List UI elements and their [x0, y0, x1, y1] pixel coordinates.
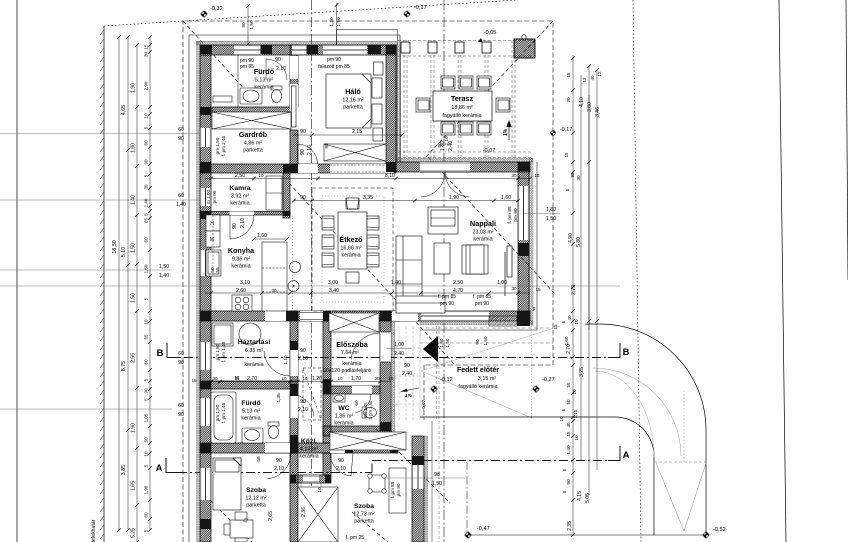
post junction gardrob [283, 164, 298, 173]
wardrobe halo wardrobe [324, 144, 386, 161]
roof hip bottom-left diagonal [205, 495, 252, 542]
svg-text:3,25: 3,25 [579, 367, 585, 377]
wall wall kamra bottom [200, 212, 290, 216]
window left window szoba1 [200, 468, 211, 500]
room label Szoba [353, 503, 374, 525]
svg-text:1,40: 1,40 [566, 445, 572, 455]
wall nappali top exterior [396, 162, 530, 172]
furniture bathroom1 [213, 86, 282, 104]
svg-text:90: 90 [276, 458, 282, 464]
roof hip bottom diagonal 2 [352, 512, 388, 542]
svg-text:1,50: 1,50 [432, 481, 442, 487]
post left wall g [200, 519, 211, 529]
post eloszoba NW post [323, 311, 331, 321]
furniture wc [333, 394, 377, 418]
dim line x432 [431, 421, 433, 542]
svg-text:Szoba: Szoba [246, 487, 266, 494]
porch paving horizontal dashes [391, 348, 420, 404]
svg-text:10: 10 [559, 416, 564, 422]
wall wall wc bottom [323, 426, 391, 436]
svg-text:8,75: 8,75 [121, 361, 127, 371]
svg-text:kerámia: kerámia [299, 454, 318, 460]
svg-text:2,10: 2,10 [276, 66, 286, 72]
svg-text:1,50: 1,50 [144, 264, 149, 273]
svg-text:kerámia: kerámia [241, 416, 260, 422]
svg-text:2,10: 2,10 [307, 145, 313, 155]
post nappali SE corner [517, 311, 530, 326]
svg-text:60: 60 [178, 193, 184, 199]
dashed line x439 [438, 326, 440, 542]
window top window halo [323, 45, 367, 55]
room label Haztartasi [238, 339, 271, 368]
wall top exterior [200, 45, 396, 55]
svg-text:-0,17: -0,17 [560, 127, 572, 133]
wall wall szoba2 right [412, 436, 424, 542]
door furdo2 door arc [290, 394, 314, 418]
svg-text:pm 90: pm 90 [327, 57, 341, 63]
svg-text:f. pm 25: f. pm 25 [346, 535, 364, 541]
svg-text:f. pm 1,45: f. pm 1,45 [221, 341, 226, 362]
svg-text:Gardrób: Gardrób [239, 130, 268, 139]
wall wall corridor left [290, 311, 298, 445]
svg-text:parketta: parketta [243, 148, 262, 154]
svg-text:pm 1,50: pm 1,50 [215, 137, 220, 154]
post exit stub l [290, 475, 296, 483]
svg-text:2,15: 2,15 [352, 129, 362, 135]
svg-text:2,55: 2,55 [131, 353, 137, 363]
svg-text:65: 65 [144, 218, 149, 224]
section line B-B [167, 343, 620, 358]
svg-text:-0,27: -0,27 [542, 377, 555, 383]
wall wall exit lobby right [323, 453, 331, 475]
svg-text:30: 30 [576, 175, 581, 181]
svg-text:15: 15 [191, 378, 197, 383]
svg-text:pm 90: pm 90 [396, 483, 401, 496]
post left wall e [200, 381, 211, 389]
svg-text:Szoba: Szoba [354, 503, 374, 510]
dim 1,80 1,50 right window [524, 213, 560, 215]
svg-text:60: 60 [178, 351, 184, 357]
ceiling lamps circles [290, 262, 301, 273]
svg-text:Fürdő: Fürdő [241, 400, 260, 407]
svg-text:m 1,00: m 1,00 [206, 190, 211, 204]
wall wall furdo1 right [290, 45, 298, 107]
roof hip terrace diagonal [424, 21, 553, 159]
svg-text:1,90: 1,90 [131, 423, 137, 433]
svg-text:18,86 m²: 18,86 m² [451, 105, 472, 111]
door szoba2 door arc [330, 453, 353, 476]
section line A-A [166, 446, 620, 473]
wardrobe szoba2 wardrobe left [298, 487, 338, 542]
svg-text:60: 60 [144, 437, 149, 443]
wall wall wc top [323, 386, 380, 394]
svg-text:-0,02: -0,02 [421, 399, 427, 410]
svg-text:60: 60 [144, 237, 149, 243]
svg-text:1,90: 1,90 [449, 195, 459, 201]
svg-text:15: 15 [566, 72, 571, 78]
opening halo door gap [297, 164, 318, 173]
post left wall f [200, 443, 211, 453]
svg-text:Étkező: Étkező [339, 235, 363, 244]
property line telekhatar [100, 26, 104, 542]
svg-text:15: 15 [534, 173, 540, 178]
terrace posts row [401, 42, 491, 53]
svg-text:2,50: 2,50 [453, 280, 463, 286]
svg-text:kerámia: kerámia [231, 264, 250, 270]
svg-text:60: 60 [178, 403, 184, 409]
room label Étkező [339, 235, 363, 259]
svg-text:60: 60 [354, 400, 360, 406]
room label Konyha [228, 246, 255, 270]
terrace edge line 2 [400, 45, 402, 162]
dim row y381 [205, 381, 391, 383]
svg-text:3,80: 3,80 [587, 102, 593, 112]
survey point bottom left [464, 526, 490, 539]
insulation strip szoba2 east [424, 436, 428, 542]
dimension chain left seg2 [126, 35, 130, 532]
svg-text:1,60: 1,60 [564, 336, 569, 345]
post entry SE post [380, 422, 391, 431]
terrace edge line at wall [396, 45, 398, 162]
svg-text:4,14 m²: 4,14 m² [300, 447, 318, 453]
svg-text:parketta: parketta [343, 105, 362, 111]
bottom dim line [468, 534, 706, 536]
svg-text:2,60: 2,60 [236, 288, 246, 294]
wall wall back exit [290, 475, 331, 483]
svg-text:90: 90 [338, 458, 344, 464]
svg-text:A: A [156, 463, 163, 474]
svg-text:Előszoba: Előszoba [336, 340, 369, 349]
door halo door [298, 144, 318, 164]
svg-text:15: 15 [535, 287, 541, 292]
opening gardrob slide gap [290, 84, 298, 127]
svg-text:30: 30 [144, 52, 149, 58]
terrace deck dashed strips [398, 40, 531, 158]
post top wall 2 [307, 45, 319, 54]
svg-text:1,50: 1,50 [131, 293, 137, 303]
kamra 60 140 dim [0, 133, 200, 135]
driveway guide arcs [593, 368, 681, 456]
svg-text:30: 30 [374, 376, 380, 381]
svg-text:5,10: 5,10 [121, 247, 127, 257]
opening haztartasi door gap [265, 311, 289, 321]
insulation strip halo right [396, 45, 400, 162]
svg-text:1,90: 1,90 [131, 83, 137, 93]
svg-text:1,30: 1,30 [329, 17, 335, 27]
svg-text:A: A [623, 450, 630, 461]
svg-text:4,10: 4,10 [579, 97, 585, 107]
svg-text:12,16 m²: 12,16 m² [342, 98, 363, 104]
window left window haztartasi [200, 342, 211, 370]
svg-text:10: 10 [258, 173, 264, 178]
svg-text:telekhatár: telekhatár [91, 519, 97, 542]
svg-text:5,13 m²: 5,13 m² [242, 409, 260, 415]
svg-text:2,36: 2,36 [301, 507, 307, 517]
svg-text:90: 90 [144, 159, 149, 165]
dim 98 150 [385, 477, 465, 479]
svg-text:Konyha: Konyha [228, 246, 255, 255]
svg-text:1,05: 1,05 [144, 413, 149, 422]
opening furdo1 door gap [290, 56, 298, 79]
svg-text:65: 65 [144, 334, 149, 340]
svg-text:3,35: 3,35 [363, 195, 373, 201]
svg-text:2,65: 2,65 [268, 511, 274, 521]
post corr bottom b [345, 443, 353, 453]
plinth outline solid [189, 35, 537, 542]
svg-text:90: 90 [324, 143, 330, 149]
kitchen dining dotted boundary [292, 218, 294, 311]
wall wall haztartasi bottom [200, 381, 298, 389]
roof overhang outline dashed [183, 21, 553, 542]
svg-text:kerámia: kerámia [254, 85, 273, 91]
svg-text:90: 90 [300, 195, 306, 201]
svg-text:pm 95: pm 95 [212, 190, 217, 203]
svg-text:15: 15 [144, 44, 149, 50]
wall left exterior [200, 55, 211, 542]
svg-text:1,50: 1,50 [336, 17, 342, 27]
svg-text:1,70: 1,70 [351, 376, 361, 382]
post exit stub r [325, 475, 331, 483]
post entry NE post [380, 311, 391, 321]
boundary line right dotted [633, 0, 641, 542]
furniture dining table [338, 198, 367, 283]
svg-text:f. pm 1,45: f. pm 1,45 [221, 402, 226, 423]
survey point top mid [403, 5, 427, 18]
svg-text:WC: WC [338, 405, 349, 412]
back exit step [301, 483, 321, 492]
post wc NW post [323, 379, 331, 394]
svg-text:1,50: 1,50 [546, 216, 556, 222]
svg-text:pm 85: pm 85 [240, 64, 254, 70]
svg-text:-0,32: -0,32 [210, 6, 223, 12]
insulation strip nappali top [396, 158, 533, 162]
svg-text:1,60: 1,60 [501, 195, 511, 201]
survey point top left [200, 6, 223, 18]
door szoba1 door arc [265, 453, 291, 479]
svg-text:10: 10 [574, 319, 579, 325]
window left window konyha [200, 250, 211, 276]
dashed line x436 [436, 326, 438, 420]
furniture coffee table [434, 243, 450, 274]
svg-text:1,40: 1,40 [159, 273, 169, 279]
window left window furdo2 [200, 398, 211, 426]
partition line furdo1 [237, 55, 239, 107]
svg-text:90: 90 [178, 360, 184, 366]
svg-text:2,50: 2,50 [235, 173, 245, 179]
svg-text:90: 90 [437, 142, 443, 148]
dim line 1,60 [254, 238, 287, 240]
svg-text:5,13 m²: 5,13 m² [255, 78, 273, 84]
svg-text:4,15: 4,15 [577, 491, 583, 501]
svg-text:-0,12: -0,12 [440, 377, 453, 383]
furniture szoba2 desk [389, 468, 406, 513]
svg-text:1,40: 1,40 [391, 280, 401, 286]
svg-text:1,80: 1,80 [131, 143, 137, 153]
svg-text:10: 10 [144, 451, 149, 457]
svg-text:1,80: 1,80 [439, 338, 444, 347]
svg-text:2,10: 2,10 [274, 466, 284, 472]
svg-text:pm 90: pm 90 [440, 301, 454, 307]
dimension chain left seg3 [135, 43, 139, 542]
dimension chain left seg4 [148, 35, 152, 532]
svg-text:1,50: 1,50 [159, 264, 169, 270]
svg-text:10: 10 [337, 376, 343, 381]
axis line vertical x444 [443, 0, 445, 542]
svg-text:-0,07: -0,07 [483, 148, 496, 154]
svg-text:pm 1,50: pm 1,50 [215, 343, 220, 360]
svg-text:2,10: 2,10 [298, 407, 308, 413]
tv on wall [505, 246, 512, 296]
svg-text:2,75: 2,75 [571, 285, 577, 295]
window szoba2 east window [412, 464, 424, 489]
post corner NW [200, 45, 212, 54]
svg-text:4,86 m²: 4,86 m² [244, 141, 262, 147]
svg-text:2,10: 2,10 [444, 136, 450, 146]
porch paving edge dotted [531, 326, 533, 417]
room label Fürdő [241, 400, 260, 422]
svg-text:5,80: 5,80 [576, 237, 582, 247]
driveway outer edge [585, 324, 706, 535]
svg-text:55: 55 [256, 456, 262, 462]
svg-text:1,50: 1,50 [445, 338, 450, 347]
svg-text:3,00: 3,00 [328, 280, 338, 286]
svg-text:15: 15 [564, 152, 569, 158]
door wc door arc [352, 394, 371, 413]
insulation strip entry east [391, 321, 395, 443]
svg-text:4,90: 4,90 [568, 233, 574, 243]
svg-text:5,05: 5,05 [585, 493, 591, 503]
svg-text:2,90: 2,90 [144, 81, 149, 90]
post left wall a [200, 107, 211, 115]
svg-text:fagyálló kerámia: fagyálló kerámia [442, 113, 481, 119]
svg-text:f. pm 1,50: f. pm 1,50 [368, 400, 373, 419]
furniture tv bench [462, 245, 488, 274]
room label Szoba [245, 487, 266, 509]
svg-text:pm 1,50: pm 1,50 [215, 404, 220, 421]
svg-text:parketta: parketta [246, 503, 265, 509]
svg-text:1,90: 1,90 [144, 485, 149, 494]
svg-text:Fedett előtér: Fedett előtér [457, 367, 499, 374]
opening kamra door gap [230, 212, 255, 216]
site line far left [16, 0, 18, 542]
svg-text:3,92 m²: 3,92 m² [231, 194, 249, 200]
post corr bottom a [290, 443, 298, 453]
terrace label box Terasz [433, 91, 492, 121]
dim row y285 [0, 285, 620, 287]
site line far right edge [846, 0, 848, 280]
svg-text:18,50: 18,50 [112, 240, 118, 254]
dim halo row y134 [294, 134, 402, 136]
counter centre dashed [212, 215, 214, 276]
opening szoba2 door gap [330, 443, 353, 453]
svg-text:1,40: 1,40 [131, 195, 137, 205]
svg-text:12: 12 [597, 71, 602, 77]
svg-text:60: 60 [144, 140, 149, 146]
svg-text:f. pm 85: f. pm 85 [438, 294, 456, 300]
post left wall d [200, 311, 211, 321]
svg-text:5,25: 5,25 [131, 528, 137, 538]
wall wall furdo1-gardrob [212, 107, 291, 113]
opening nappali glass door [420, 162, 470, 172]
insulation strip nappali bottom [420, 321, 533, 325]
opening furdo2 door gap [290, 396, 298, 418]
post halo SE corner [386, 162, 396, 172]
opening back exit door [303, 475, 319, 483]
furniture kamra shelf [266, 176, 282, 210]
svg-text:1,96 m²: 1,96 m² [335, 414, 353, 420]
svg-text:12,73 m²: 12,73 m² [353, 512, 374, 518]
room label Kamra [229, 185, 250, 207]
svg-text:60: 60 [178, 127, 184, 133]
svg-text:30: 30 [566, 97, 571, 103]
boundary line top slanted [104, 0, 516, 26]
svg-text:1,00: 1,00 [394, 342, 404, 348]
svg-text:1,15: 1,15 [573, 409, 578, 418]
svg-text:1,35: 1,35 [276, 393, 282, 403]
svg-text:90: 90 [178, 136, 184, 142]
svg-text:Nappali: Nappali [470, 219, 496, 228]
window right window nappali 1 [518, 186, 529, 240]
svg-text:kerámia: kerámia [473, 237, 492, 243]
svg-text:30: 30 [511, 173, 517, 178]
svg-text:90: 90 [300, 399, 306, 405]
window nappali south window [421, 311, 489, 321]
roof hip top-left diagonal [183, 21, 247, 92]
room label Közl. [299, 438, 318, 460]
svg-text:2,40: 2,40 [394, 351, 404, 357]
door kamra door [230, 215, 254, 239]
svg-text:10: 10 [144, 319, 149, 325]
post corr bottom c [390, 443, 398, 453]
wall nappali bottom exterior [396, 311, 530, 321]
post top wall 1 [261, 45, 273, 54]
room label Gardrób [239, 130, 268, 154]
svg-text:-0,47: -0,47 [477, 526, 490, 532]
wall wall corridor bottom [290, 443, 398, 453]
svg-text:10: 10 [281, 376, 287, 381]
survey point bottom right [702, 527, 726, 539]
label Fedett eloter [457, 367, 499, 390]
wall entry wall east [380, 311, 391, 443]
svg-text:kerámia: kerámia [334, 421, 353, 427]
svg-text:2,35: 2,35 [567, 521, 573, 531]
svg-text:90: 90 [178, 412, 184, 418]
svg-text:10: 10 [574, 435, 579, 441]
axis x467 bottom [466, 462, 468, 534]
driveway gate mark [654, 390, 706, 531]
post corr post b [290, 384, 298, 396]
svg-text:-0,05: -0,05 [484, 30, 497, 36]
svg-text:30: 30 [271, 288, 277, 293]
driveway inner edge [420, 417, 654, 535]
svg-text:1%: 1% [503, 128, 509, 136]
opening front door gap [380, 332, 391, 362]
svg-text:55: 55 [215, 267, 220, 273]
right dim chain upper [580, 75, 582, 330]
svg-text:15: 15 [566, 431, 571, 437]
svg-text:85: 85 [570, 172, 575, 178]
svg-text:pm 90: pm 90 [475, 301, 489, 307]
wall wall furdo2 bottom [200, 443, 298, 453]
svg-text:M: M [210, 237, 214, 243]
svg-text:40: 40 [566, 422, 571, 428]
furniture haztartasi [212, 323, 261, 346]
svg-text:falazott pm 85: falazott pm 85 [318, 64, 350, 70]
survey point porch left [430, 377, 453, 393]
svg-text:Terasz: Terasz [451, 94, 474, 103]
svg-text:1,60: 1,60 [257, 233, 267, 239]
svg-text:90: 90 [241, 22, 247, 28]
